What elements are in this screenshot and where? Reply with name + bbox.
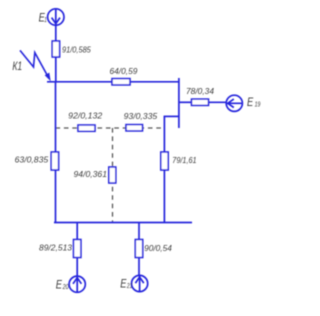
90 branch wire lower bbox=[138, 258, 140, 276]
resistor R90 bbox=[135, 240, 142, 258]
EMF source E21 bbox=[132, 275, 148, 291]
right vertical wire bbox=[178, 78, 180, 128]
svg-text:1: 1 bbox=[44, 15, 47, 24]
svg-text:91/0,585: 91/0,585 bbox=[62, 44, 91, 54]
top bus wire bbox=[47, 81, 179, 83]
bottom bus wire bbox=[54, 222, 192, 224]
svg-text:21: 21 bbox=[126, 281, 132, 290]
left branch wire upper bbox=[55, 82, 57, 152]
left branch wire lower bbox=[55, 170, 57, 223]
short-circuit arrow K1 bbox=[20, 50, 48, 76]
svg-text:19: 19 bbox=[255, 100, 261, 109]
79 branch vertical wire lower bbox=[163, 170, 165, 223]
svg-text:78/0,34: 78/0,34 bbox=[186, 86, 214, 96]
resistor R63 bbox=[51, 152, 58, 170]
EMF source E19 bbox=[226, 95, 242, 111]
jog wire node to 79 branch bbox=[164, 115, 179, 117]
dashed middle vertical wire bbox=[112, 128, 114, 222]
89 branch wire upper bbox=[76, 223, 78, 240]
resistor R92 bbox=[78, 125, 95, 131]
svg-text:90/0,54: 90/0,54 bbox=[144, 243, 172, 253]
dashed row wire bbox=[56, 127, 165, 129]
resistor R64 bbox=[112, 79, 130, 85]
svg-text:64/0,59: 64/0,59 bbox=[110, 66, 138, 76]
svg-text:К1: К1 bbox=[12, 59, 22, 73]
resistor R79 bbox=[161, 152, 168, 170]
EMF source E1 bbox=[48, 9, 64, 25]
svg-text:63/0,835: 63/0,835 bbox=[15, 154, 49, 164]
79 branch vertical wire upper bbox=[163, 116, 165, 152]
svg-text:20: 20 bbox=[62, 282, 69, 291]
svg-text:Е: Е bbox=[247, 95, 254, 109]
90 branch wire upper bbox=[138, 223, 140, 240]
wire R78 to E19 bbox=[209, 101, 227, 103]
EMF source E20 bbox=[69, 276, 85, 292]
svg-text:94/0,361: 94/0,361 bbox=[74, 169, 108, 179]
resistor R89 bbox=[74, 240, 81, 258]
wire to R78 bbox=[179, 101, 192, 103]
svg-text:79/1,61: 79/1,61 bbox=[172, 155, 196, 165]
resistor R94 bbox=[109, 167, 116, 183]
89 branch wire lower bbox=[76, 258, 78, 277]
wire R91 to top node bbox=[55, 57, 57, 82]
resistor R93 bbox=[126, 125, 143, 131]
svg-text:89/2,513: 89/2,513 bbox=[39, 242, 72, 252]
svg-text:92/0,132: 92/0,132 bbox=[68, 111, 102, 121]
resistor R91 bbox=[52, 41, 59, 57]
svg-text:93/0,335: 93/0,335 bbox=[124, 111, 158, 121]
resistor R78 bbox=[192, 99, 209, 105]
svg-text:Е: Е bbox=[56, 277, 63, 291]
wire source E1 to R91 bbox=[55, 25, 57, 41]
